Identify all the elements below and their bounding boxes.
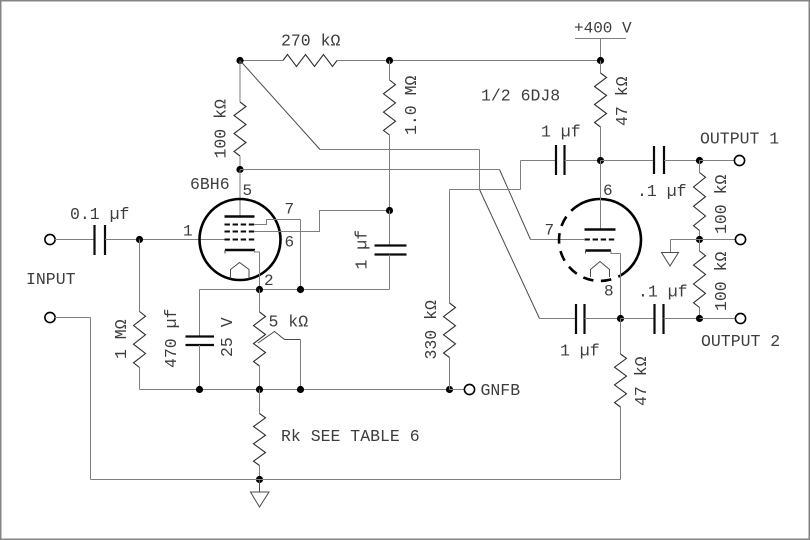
wire to OUTPUT 2 terminal	[700, 318, 736, 320]
potentiometer wiper arm	[258, 332, 301, 344]
svg-text:100 kΩ: 100 kΩ	[712, 174, 731, 234]
svg-text:7: 7	[545, 222, 555, 240]
wire cathode row	[200, 289, 390, 291]
svg-text:1 µf: 1 µf	[560, 342, 600, 361]
svg-text:100 kΩ: 100 kΩ	[212, 99, 231, 159]
6BH6 cathode	[225, 249, 255, 252]
svg-text:OUTPUT 1: OUTPUT 1	[700, 130, 779, 149]
node output 2	[696, 315, 703, 322]
node output 1	[696, 157, 703, 164]
wire bootstrap: B+ node to lower 1 µf cap	[240, 61, 320, 150]
6BH6 grid g2 (screen)	[225, 231, 255, 233]
node B+ 1.0M tap	[386, 57, 393, 64]
wire to OUTPUT 1 terminal	[700, 160, 735, 162]
svg-text:7: 7	[285, 201, 295, 219]
6DJ8 grid (pin 7)	[585, 239, 616, 241]
node cathode / 6BH6 pin2	[256, 286, 263, 293]
svg-text:100 kΩ: 100 kΩ	[712, 251, 731, 311]
svg-text:5: 5	[243, 182, 253, 200]
terminal OUTPUT 2	[735, 313, 745, 323]
6BH6 plate	[225, 215, 255, 218]
svg-text:1 MΩ: 1 MΩ	[112, 319, 131, 359]
tube 6DJ8 envelope (solid right half)	[580, 199, 641, 275]
node 6DJ8 cathode / 47k / bootstrap	[617, 315, 624, 322]
terminal output common	[735, 234, 745, 244]
wire ground bus	[91, 479, 621, 481]
svg-text:6: 6	[285, 234, 295, 252]
ground (output divider)	[671, 239, 700, 241]
svg-text:8: 8	[604, 283, 614, 301]
node 6DJ8 plate / 47k / output 1	[597, 157, 604, 164]
wire cathode lead (pin 2)	[255, 250, 260, 290]
svg-text:25 V: 25 V	[218, 317, 237, 357]
svg-text:5 kΩ: 5 kΩ	[269, 313, 309, 332]
wire bus to GNFB terminal	[450, 389, 465, 391]
tube 6BH6 envelope	[200, 199, 281, 280]
node output common	[696, 236, 703, 243]
6DJ8 plate (pin 6)	[600, 161, 602, 230]
node B+ / 270k / 100k junction	[236, 57, 243, 64]
svg-text:2: 2	[264, 272, 274, 290]
svg-text:47 kΩ: 47 kΩ	[613, 76, 632, 126]
wire g3 to cathode row (pin 7)	[255, 220, 301, 225]
terminal INPUT (return)	[45, 312, 55, 322]
svg-text:1 µf: 1 µf	[541, 123, 581, 142]
node bus / 5k pot	[256, 386, 263, 393]
svg-text:INPUT: INPUT	[26, 270, 76, 289]
6BH6 grid g1 (control)	[225, 239, 255, 241]
svg-text:0.1 µf: 0.1 µf	[70, 205, 129, 224]
svg-text:270 kΩ: 270 kΩ	[281, 32, 341, 51]
node ground bus / Rk	[256, 476, 263, 483]
6DJ8 cathode (pin 8)	[586, 249, 612, 252]
node cathode / g3 tie	[297, 286, 304, 293]
terminal INPUT (hot)	[45, 234, 55, 244]
wire plate node to output 1 cap	[601, 160, 655, 162]
node bus / 330 kΩ	[446, 386, 453, 393]
svg-text:47 kΩ: 47 kΩ	[632, 356, 651, 406]
svg-text:Rk SEE TABLE 6: Rk SEE TABLE 6	[281, 427, 420, 446]
svg-text:1 µf: 1 µf	[353, 230, 372, 270]
6BH6 heater	[231, 263, 250, 279]
svg-text:6: 6	[603, 182, 613, 200]
wire B+ rail	[240, 60, 283, 62]
node 6BH6 plate	[236, 166, 243, 173]
6DJ8 heater	[591, 262, 610, 278]
terminal OUTPUT 1	[734, 155, 744, 165]
wire input cap to grid	[105, 239, 225, 241]
node bus / 470 µf	[196, 386, 203, 393]
node screen / 1 µf bypass	[386, 207, 393, 214]
svg-text:.1 µf: .1 µf	[637, 182, 687, 201]
wire cathode bus	[140, 389, 450, 391]
svg-text:1.0 MΩ: 1.0 MΩ	[402, 75, 421, 135]
svg-text:330 kΩ: 330 kΩ	[422, 300, 441, 360]
svg-text:6BH6: 6BH6	[190, 175, 230, 194]
ground (below Rk)	[259, 480, 261, 493]
wire g2 to screen node (pin 6)	[255, 211, 390, 232]
svg-text:GNFB: GNFB	[481, 381, 521, 400]
wire input return to ground bus	[55, 317, 91, 319]
terminal GNFB	[464, 384, 474, 394]
svg-text:470 µf: 470 µf	[162, 309, 181, 368]
wire 6BH6 plate lead (pin 5)	[239, 170, 241, 217]
node +400V / 47k	[597, 57, 604, 64]
node bus / wiper	[297, 386, 304, 393]
svg-text:1/2 6DJ8: 1/2 6DJ8	[481, 87, 560, 106]
wire 6BH6 plate to 6DJ8 grid pin 7	[240, 169, 500, 171]
6BH6 grid g3 (suppressor)	[225, 224, 255, 226]
svg-text:.1 µf: .1 µf	[638, 283, 688, 302]
svg-text:1: 1	[183, 223, 193, 241]
node input grid / 1 MΩ	[136, 236, 143, 243]
svg-text:+400 V: +400 V	[574, 20, 632, 38]
wire to common terminal	[700, 239, 736, 241]
svg-text:OUTPUT 2: OUTPUT 2	[701, 332, 780, 351]
tube 6DJ8 envelope (dashed left half)	[559, 205, 620, 281]
wire cathode node to output 2 cap	[621, 318, 655, 320]
